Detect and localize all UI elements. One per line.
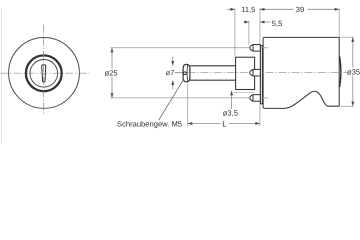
svg-text:Schraubengew. M5: Schraubengew. M5 [117, 119, 182, 128]
svg-text:5,5: 5,5 [272, 19, 283, 28]
svg-text:ø35: ø35 [347, 67, 360, 76]
svg-text:11,5: 11,5 [241, 5, 255, 14]
svg-text:ø25: ø25 [105, 68, 118, 77]
svg-text:39: 39 [296, 5, 304, 14]
svg-text:ø3,5: ø3,5 [223, 109, 238, 118]
svg-text:ø7: ø7 [166, 68, 175, 77]
svg-text:L: L [222, 119, 227, 128]
